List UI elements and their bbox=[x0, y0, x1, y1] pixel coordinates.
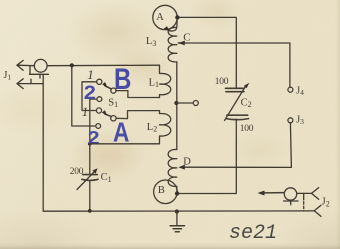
svg-text:200: 200 bbox=[70, 167, 84, 177]
inductor L1 bbox=[116, 65, 171, 97]
svg-text:B: B bbox=[158, 185, 165, 196]
svg-text:D: D bbox=[183, 156, 191, 167]
wire C1 to ground bus bbox=[89, 181, 91, 212]
jack J1 bbox=[17, 60, 49, 88]
svg-text:100: 100 bbox=[215, 77, 229, 87]
svg-text:C2: C2 bbox=[241, 97, 252, 109]
svg-text:C: C bbox=[183, 31, 190, 43]
ground bbox=[170, 212, 184, 232]
wire tie contacts 1a-1b bbox=[82, 82, 97, 111]
terminal J4 bbox=[288, 87, 293, 92]
terminal B bbox=[154, 180, 178, 204]
switch S1 section 1 bbox=[97, 79, 116, 101]
wire J1 tip to L1 top bbox=[17, 64, 34, 67]
svg-text:L3: L3 bbox=[146, 36, 156, 48]
wire contact 2a to C1 rail bbox=[90, 99, 97, 144]
tap D arrow bbox=[178, 165, 184, 170]
wire coil center (L3 to L4) bbox=[176, 62, 178, 150]
svg-text:se21: se21 bbox=[229, 222, 277, 245]
svg-text:1: 1 bbox=[82, 104, 89, 119]
wire B to C2 bottom bbox=[179, 119, 236, 194]
switch S1 section 2 bbox=[96, 108, 116, 128]
svg-text:2: 2 bbox=[84, 82, 96, 103]
svg-text:C1: C1 bbox=[101, 172, 112, 184]
arrow at terminal A bbox=[164, 26, 170, 31]
junction dot node B bbox=[175, 191, 179, 195]
svg-text:2: 2 bbox=[88, 128, 100, 148]
junction dot coil tap bbox=[174, 101, 178, 105]
variable capacitor C1 bbox=[77, 168, 98, 189]
wire J1 sleeve to ground bus bbox=[17, 83, 43, 85]
svg-text:L1: L1 bbox=[149, 77, 159, 89]
jack J2 bbox=[284, 188, 322, 217]
wire C1 rail upper bbox=[89, 144, 91, 174]
junction dot (L2 bottom / C1 rail) bbox=[88, 142, 92, 146]
open terminal at coil tap bbox=[193, 101, 198, 106]
tap C arrow bbox=[178, 42, 184, 44]
inductor L3 bbox=[167, 19, 177, 62]
wire A to C2 top bbox=[179, 17, 236, 88]
terminal A bbox=[153, 5, 177, 29]
svg-text:L2: L2 bbox=[147, 122, 157, 134]
inductor L4 bbox=[168, 149, 177, 193]
junction dot node A bbox=[175, 15, 179, 19]
svg-text:J3: J3 bbox=[296, 114, 304, 126]
ground bus wire bbox=[43, 210, 314, 212]
svg-text:A: A bbox=[156, 12, 164, 23]
wire J3 to D tap bbox=[185, 123, 292, 168]
wire tap stub bbox=[177, 102, 193, 104]
svg-text:100: 100 bbox=[240, 124, 254, 134]
junction dot (C1 / bus) bbox=[88, 209, 92, 213]
svg-text:J2: J2 bbox=[322, 197, 330, 209]
connector circle at J2 bbox=[284, 188, 296, 200]
junction dot (top bus / switch feed) bbox=[70, 63, 74, 67]
svg-text:J4: J4 bbox=[296, 86, 304, 98]
variable capacitor C2 bbox=[225, 83, 250, 121]
inductor L2 bbox=[90, 111, 171, 144]
junction dot (coil B / bus) bbox=[175, 209, 179, 213]
connector circle at J1 bbox=[34, 59, 47, 72]
arrow to J2 bbox=[263, 192, 284, 194]
svg-text:J1: J1 bbox=[4, 70, 12, 82]
wire switch feed to contact 2b bbox=[72, 65, 96, 126]
terminal J3 bbox=[288, 118, 293, 123]
wire C tap to J4 bbox=[185, 43, 290, 87]
svg-text:S1: S1 bbox=[108, 98, 118, 110]
svg-text:1: 1 bbox=[87, 67, 94, 82]
